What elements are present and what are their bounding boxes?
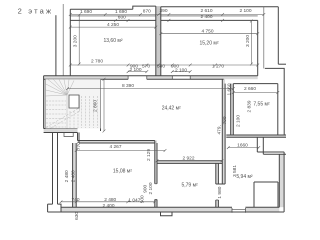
wire: inner top face room 1	[70, 19, 156, 21]
wall: bottom wall outer face	[48, 211, 285, 213]
svg-text:15,08 м²: 15,08 м²	[113, 168, 132, 174]
stair landing rect	[69, 95, 79, 108]
wall: top wall of room 15.08	[78, 140, 155, 142]
svg-text:740: 740	[71, 197, 79, 203]
svg-text:2 860: 2 860	[93, 100, 99, 112]
wire: top wall parapet step up	[133, 6, 156, 9]
wire: step from stair block to room 15.08 wall	[77, 133, 79, 141]
door caps interior walls	[155, 184, 246, 213]
wall: bottom wall inner face with door gap	[61, 206, 279, 208]
wall: right wall of room 2	[257, 20, 259, 75]
dim line: 4250	[70, 26, 156, 28]
dim line: 4267	[76, 150, 165, 152]
svg-text:3 200: 3 200	[245, 35, 251, 47]
dim line: 2860 vertical stair	[103, 79, 105, 131]
dimension lines and ticks	[60, 13, 280, 203]
wall: corridor wall vertical	[221, 79, 223, 184]
dim line: 4750	[161, 33, 258, 35]
door jambs	[128, 76, 190, 79]
stair winder fan	[46, 80, 74, 97]
svg-text:500: 500	[139, 195, 145, 203]
svg-text:1 690: 1 690	[80, 9, 92, 15]
wire: cap between 5.79 and 5.94 walls	[216, 183, 225, 185]
svg-text:2 100: 2 100	[148, 182, 154, 194]
svg-text:1660: 1660	[237, 142, 248, 148]
wall: stair right wall	[100, 79, 102, 131]
dim ticks: 600 row on inner face	[114, 19, 129, 22]
wall: right wall of room 5.79	[215, 163, 217, 207]
dim ticks: 2400 row on inner face	[168, 19, 225, 22]
svg-text:479,: 479,	[217, 125, 223, 134]
svg-text:570: 570	[142, 63, 150, 69]
staircase area fill	[45, 79, 100, 128]
dim line: 2660 room 7.55	[233, 92, 277, 94]
wall: right inner wall of room 7.55	[277, 84, 279, 135]
dim line: top row 1	[70, 14, 263, 16]
svg-text:2 480: 2 480	[104, 197, 116, 203]
svg-text:2 400: 2 400	[102, 203, 114, 209]
svg-text:3 200: 3 200	[73, 35, 79, 47]
gray underfill for thin walls	[44, 6, 286, 212]
svg-text:770: 770	[76, 142, 82, 150]
svg-text:1 270: 1 270	[212, 63, 224, 69]
svg-text:2 400: 2 400	[70, 170, 76, 182]
wire: top wall outer face (left section)	[70, 8, 133, 10]
svg-text:2 400: 2 400	[200, 14, 212, 20]
dim line: 2100 door room1	[128, 71, 147, 73]
wire: window line rooms	[70, 15, 257, 17]
dimension texts	[64, 8, 270, 220]
wall: top wall of room 5.79	[157, 160, 222, 162]
wall: left wall of room 15.08	[72, 143, 74, 207]
svg-text:1 980: 1 980	[217, 186, 223, 198]
dim ticks: 2922 on wall line	[156, 159, 224, 162]
stair mid flight treads	[70, 111, 78, 128]
svg-text:24,42 м²: 24,42 м²	[162, 106, 181, 112]
stair left flight treads	[46, 101, 66, 127]
wall: stair block left wall	[43, 76, 45, 129]
dim line: 2100 door room2	[172, 71, 190, 73]
svg-text:5,94 м²: 5,94 м²	[236, 174, 253, 180]
wire: top-right step out	[278, 63, 286, 65]
svg-text:1 047: 1 047	[128, 198, 140, 204]
svg-text:900: 900	[143, 184, 149, 192]
stair right flight treads	[82, 96, 98, 128]
svg-text:600: 600	[118, 14, 126, 20]
dim line: 1660 nook	[228, 147, 258, 149]
wall: left wall below stairs	[52, 133, 54, 205]
dim line: 8390	[68, 88, 234, 90]
stair inner edges	[67, 95, 80, 129]
svg-text:2 100: 2 100	[239, 8, 251, 14]
wire: inner top face room 2	[161, 19, 258, 21]
wire: step down right side	[256, 137, 258, 152]
svg-text:13,60 м²: 13,60 м²	[103, 38, 122, 44]
svg-text:2 100: 2 100	[236, 115, 242, 127]
svg-text:2 100: 2 100	[129, 67, 141, 73]
wall: stair block bottom	[44, 128, 78, 130]
svg-text:2 480: 2 480	[64, 170, 70, 182]
svg-text:2 129: 2 129	[146, 149, 152, 161]
svg-text:630: 630	[74, 212, 80, 220]
dim row1 ticks	[69, 13, 265, 16]
svg-text:8 390: 8 390	[122, 83, 134, 89]
dim line: 3200 room1 vertical	[78, 15, 80, 64]
svg-text:5,79 м²: 5,79 м²	[181, 182, 198, 188]
niche in bottom right	[254, 182, 278, 207]
staircase light detail	[46, 80, 98, 129]
wire: top inner face of room 7.55	[233, 83, 277, 85]
svg-text:1 690: 1 690	[115, 9, 127, 15]
svg-text:2 этаж: 2 этаж	[18, 7, 54, 16]
svg-text:700: 700	[222, 116, 228, 124]
svg-text:2 922: 2 922	[182, 156, 194, 162]
svg-text:1 660: 1 660	[227, 83, 233, 95]
wall: right outer wall bottom section	[283, 152, 285, 212]
stair break lines diagonal	[46, 108, 81, 128]
wall: left wall of room 7.55	[230, 84, 232, 135]
dim line: bottom row 740/2480/1047	[61, 201, 155, 203]
wall: divider rooms 1/2	[155, 6, 157, 76]
svg-text:2 780: 2 780	[91, 59, 103, 65]
svg-text:2 660: 2 660	[244, 86, 256, 92]
stair entry step below	[64, 133, 73, 137]
svg-text:15,20 м²: 15,20 м²	[199, 40, 218, 46]
wall: bottom of room 7.55	[226, 134, 286, 136]
svg-text:390: 390	[159, 8, 167, 14]
svg-text:2 610: 2 610	[200, 8, 212, 14]
svg-text:7,55 м²: 7,55 м²	[253, 102, 270, 108]
dim line: 3200 room2 vertical	[250, 21, 252, 64]
svg-text:2 839: 2 839	[247, 100, 253, 112]
wall: wall between 15.08 and bottom corridor, with door gap	[154, 141, 156, 208]
wall: bottom wall of top rooms, with two door gaps	[44, 75, 258, 77]
svg-text:870: 870	[143, 9, 151, 15]
wire: top wall outer face (right section)	[161, 6, 278, 8]
wall: bottom-left notch	[48, 204, 53, 212]
svg-text:4 250: 4 250	[107, 22, 119, 28]
svg-text:4 750: 4 750	[201, 28, 213, 34]
svg-text:2 100: 2 100	[175, 67, 187, 73]
svg-text:4 267: 4 267	[109, 144, 121, 150]
step box under bottom wall	[161, 212, 173, 216]
svg-text:580: 580	[157, 63, 165, 69]
dim line: room1 bottom row 2780/900/570	[70, 64, 257, 66]
wall: left outer wall	[55, 15, 57, 76]
wire: door sill bottom	[232, 209, 245, 211]
